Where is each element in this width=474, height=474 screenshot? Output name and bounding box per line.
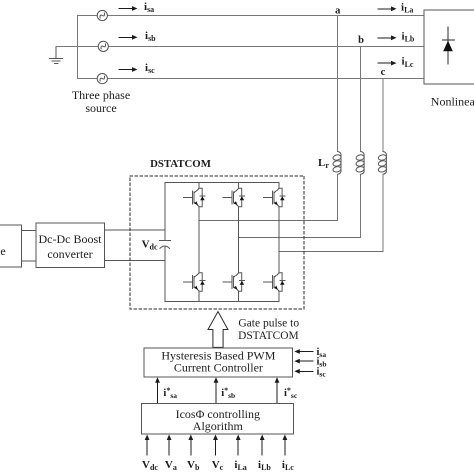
svg-text:source: source — [85, 101, 116, 115]
wire phase c top — [78, 78, 98, 80]
inductor Lb — [356, 152, 365, 175]
arrow reference i*_sc — [275, 377, 280, 403]
svg-text:isc: isc — [145, 62, 155, 75]
svg-text:Gate pulse to: Gate pulse to — [238, 318, 299, 330]
arrow feedback i_sa — [294, 349, 313, 354]
AC source Vsa — [97, 10, 107, 20]
wire converter to bridge top — [104, 229, 165, 231]
leg 3 wires — [278, 182, 280, 188]
svg-text:iLb: iLb — [258, 459, 271, 472]
input arrow Vdc — [145, 435, 150, 456]
IGBT S5 — [263, 188, 285, 206]
svg-text:iLb: iLb — [402, 30, 415, 43]
wire phase c tap — [279, 250, 383, 252]
AC source Vsb — [98, 41, 108, 51]
wire bus vertical — [77, 16, 79, 79]
svg-text:a: a — [335, 6, 341, 17]
wire phase c to load — [107, 78, 424, 80]
wire phase a to load — [107, 15, 424, 17]
arrow i_sc — [119, 67, 138, 72]
svg-text:Vdc: Vdc — [142, 239, 158, 252]
svg-text:c: c — [381, 67, 386, 78]
svg-text:iLa: iLa — [401, 1, 413, 14]
wire PV to converter top — [22, 230, 36, 232]
Dc-Dc Boost converter box — [36, 223, 105, 268]
wire converter to bridge bottom — [104, 259, 165, 261]
leg 1 wires — [198, 182, 200, 188]
svg-text:converter: converter — [47, 247, 92, 261]
svg-text:Three phase: Three phase — [72, 88, 130, 102]
input arrow iLb — [260, 435, 265, 456]
Hysteresis Based PWM Current Controller box — [144, 348, 293, 377]
input arrow Vb — [188, 435, 193, 456]
svg-text:Nonlinear l: Nonlinear l — [431, 94, 474, 108]
wire phase b tap — [239, 237, 361, 239]
diode D1 — [443, 27, 455, 64]
wire phase a tap — [199, 220, 338, 222]
wire node b vertical — [360, 46, 362, 151]
arrow reference i*_sb — [214, 377, 219, 403]
bridge bottom rail — [165, 300, 279, 302]
svg-text:e: e — [0, 244, 5, 258]
input arrow iLa — [236, 435, 241, 456]
svg-text:DSTATCOM: DSTATCOM — [150, 158, 211, 170]
DSTATCOM dashed box — [130, 176, 304, 309]
input arrow iLc — [283, 435, 288, 456]
svg-text:iLa: iLa — [234, 459, 246, 472]
svg-text:Vb: Vb — [187, 459, 200, 472]
svg-text:i*sa: i*sa — [163, 386, 177, 400]
ground — [50, 46, 63, 63]
arrow i_sb — [119, 35, 138, 40]
arrow i_Lc — [378, 61, 397, 66]
svg-text:isa: isa — [144, 1, 154, 14]
IGBT S2 — [263, 273, 285, 291]
arrow i_La — [378, 6, 397, 11]
PV module box (clipped at left) — [0, 225, 22, 267]
Icos phi controlling Algorithm box — [141, 403, 293, 433]
leg 2 wires — [238, 182, 240, 188]
svg-text:Algorithm: Algorithm — [193, 419, 244, 433]
wire node c vertical — [382, 79, 384, 152]
svg-text:iLc: iLc — [282, 459, 294, 472]
gate pulse hollow arrow — [208, 312, 228, 348]
inductor Lc — [378, 152, 387, 175]
nonlinear load box — [424, 10, 474, 84]
svg-text:Lr: Lr — [318, 157, 329, 170]
wire phase b to load — [109, 45, 424, 47]
wire PV to converter bottom — [22, 260, 36, 262]
capacitor Cdc — [160, 240, 171, 248]
arrow reference i*_sa — [155, 377, 160, 403]
input arrow Va — [167, 435, 172, 456]
IGBT S6 — [223, 273, 245, 291]
svg-text:i*sb: i*sb — [221, 386, 235, 400]
arrow i_Lb — [378, 35, 397, 40]
wire phase a top — [78, 15, 98, 17]
svg-text:isb: isb — [145, 30, 156, 43]
svg-text:Dc-Dc Boost: Dc-Dc Boost — [39, 232, 103, 246]
AC source Vsc — [97, 74, 107, 84]
svg-text:DSTATCOM: DSTATCOM — [238, 330, 298, 342]
svg-text:i*sc: i*sc — [284, 386, 298, 400]
svg-text:Current Controller: Current Controller — [174, 361, 263, 375]
IGBT S3 — [223, 188, 245, 206]
arrow i_sa — [119, 6, 138, 11]
svg-text:b: b — [358, 35, 364, 46]
arrow feedback i_sc — [294, 369, 313, 374]
wire ground-to-bus — [56, 45, 98, 47]
wire node a vertical — [337, 16, 339, 152]
arrow feedback i_sb — [294, 359, 313, 364]
input arrow Vc — [213, 435, 218, 456]
svg-text:Vdc: Vdc — [142, 459, 158, 472]
IGBT S4 — [183, 273, 205, 291]
svg-text:iLc: iLc — [402, 56, 414, 69]
bridge top rail — [165, 181, 279, 183]
IGBT S1 — [183, 188, 205, 206]
bridge left dc link — [164, 182, 166, 240]
inductor La — [332, 152, 341, 175]
svg-text:Va: Va — [165, 459, 177, 472]
svg-text:Vc: Vc — [212, 459, 224, 472]
